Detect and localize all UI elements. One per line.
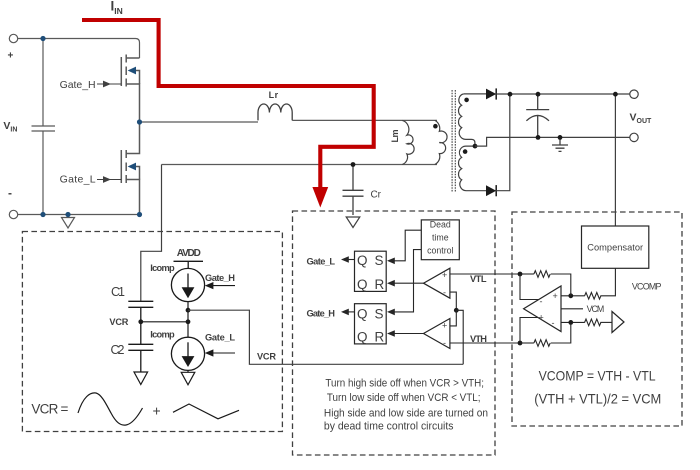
wire resonant rail to C1 [141,165,162,302]
dot minus input [568,320,573,325]
comparator U2 (VTH) [424,319,450,349]
svg-text:-: - [540,297,543,307]
resistor R buffer [585,319,601,326]
dot VTL rail [518,272,523,277]
svg-text:VTH: VTH [470,334,487,344]
svg-text:VOUT: VOUT [630,112,653,126]
svg-text:Q: Q [357,330,368,345]
terminal input + [9,34,17,42]
node dots output [508,92,618,140]
svg-text:-: - [552,318,555,328]
svg-text:Dead: Dead [430,220,451,230]
wire opamp out+ to VTL node [520,274,539,300]
svg-text:by dead time control circuits: by dead time control circuits [324,420,454,432]
capacitor C1 [128,301,153,322]
wire D2 cathode up [496,94,510,191]
svg-text:S: S [375,306,384,321]
wire input cap branch [42,39,44,215]
wire comp1 minus to node [450,292,456,310]
capacitor C2 [128,322,153,372]
svg-text:VIN: VIN [3,120,17,134]
dot VCR comp node [454,308,459,313]
ground output (earth) [552,137,568,151]
svg-text:-: - [443,288,446,298]
wire VTH bottom rail feedback [520,342,534,344]
wire top rail [18,39,140,59]
transformer primary winding [435,120,447,164]
dot mid node lower [186,319,191,324]
capacitor input Cin plates [32,126,56,131]
svg-text:Icomp: Icomp [150,263,175,273]
svg-text:VCR =: VCR = [31,402,68,417]
wire to buffer [600,321,612,323]
svg-text:VCOMP = VTH - VTL: VCOMP = VTH - VTL [539,367,656,383]
wire Lr to transformer [292,119,437,121]
wire VCR node [141,321,188,323]
diode D1 [486,89,496,100]
svg-text:Lr: Lr [269,90,279,100]
transformer secondary bottom winding [459,146,487,191]
wire dead time to latch1 S [395,230,422,261]
waveform triangle [173,404,239,419]
dot VTH rail [518,341,523,346]
svg-text:time: time [432,233,449,243]
svg-text:Cr: Cr [371,190,382,201]
op-amp differential [524,286,561,332]
terminal input - [9,210,17,218]
svg-text:Gate_H: Gate_H [60,79,96,91]
svg-text:Q: Q [357,277,368,292]
dot center tap [473,144,478,149]
wire output bottom rail [475,137,630,146]
box dead time control [421,220,459,260]
svg-text:Compensator: Compensator [587,243,643,253]
wire latch1 Q out (Gate_L) [348,259,355,261]
svg-text:Gate_H: Gate_H [205,273,235,283]
svg-text:Q: Q [357,306,368,321]
wire gate L arrow [97,179,121,181]
wire R VTH to minus input [551,322,571,343]
latch SR2 [355,304,387,344]
svg-text:VCM: VCM [587,304,605,314]
svg-text:control: control [427,245,453,255]
wire R VTL to plus input [551,274,571,296]
ground input [62,218,75,229]
wire comp2 to latch2 R [395,333,424,335]
wire compensator out to VCOMP resistor [600,268,615,296]
svg-text:Icomp: Icomp [150,330,175,340]
dot secondary top phase [464,98,469,103]
svg-text:+: + [442,270,447,280]
wire bottom rail [18,214,140,216]
svg-text:Gate_L: Gate_L [60,174,96,186]
capacitor Cout [526,94,549,137]
dot plus input [568,293,573,298]
wire comp1 to latch1 R [395,282,424,284]
inductor Lr [258,104,292,120]
svg-text:Gate_L: Gate_L [307,256,336,266]
svg-text:+: + [8,51,14,62]
diode D2 [486,185,496,196]
wire red IIN path [82,20,374,188]
svg-text:Q: Q [357,253,368,268]
svg-text:VTL: VTL [470,274,487,284]
wire secondary top to D1 [464,93,486,95]
wire node to comp2 plus [450,310,456,326]
transformer core [452,90,455,193]
transistor Q low-side MOSFET [121,122,139,215]
svg-text:VCR: VCR [109,317,128,327]
svg-text:R: R [375,330,385,345]
svg-text:+: + [539,313,544,323]
svg-text:R: R [375,277,385,292]
dot Cr node [351,162,356,167]
current source Icomp low [171,337,204,370]
svg-text:S: S [375,253,384,268]
resistor R VTH [534,340,550,347]
ground Cr [346,217,360,228]
node dots (blue) [40,36,142,217]
current source Icomp high [171,268,204,301]
svg-text:-: - [8,186,12,200]
wire node to VCR feed [456,310,463,364]
wire VTL rail [450,273,520,275]
dot mid node upper [186,308,191,313]
svg-text:Gate_L: Gate_L [205,333,235,343]
svg-text:-: - [443,338,446,348]
dashed box compensator [512,212,682,426]
dashed box VCR generator [22,232,282,432]
wire plus input [561,295,585,297]
waveform sine [78,393,143,425]
ground Icomp low [181,370,195,384]
inductor Lm [402,120,414,164]
wire dead time to latch2 S [395,250,422,312]
svg-text:(VTH + VTL)/2 = VCM: (VTH + VTL)/2 = VCM [534,390,661,406]
wire VCR to comparators [188,310,463,364]
svg-text:+: + [442,321,447,331]
svg-text:Turn low side off when VCR < V: Turn low side off when VCR < VTL; [327,392,481,404]
svg-text:Lm: Lm [390,130,400,143]
arrow body high-side [128,67,136,75]
arrow body low-side [128,163,136,171]
dot VCR-C junction [138,319,143,324]
box compensator [582,226,649,268]
wire VTL top rail feedback [520,273,534,275]
transformer secondary top winding [459,94,475,146]
svg-text:High side and low side are tur: High side and low side are turned on [324,408,488,420]
wire source mid node [187,302,189,338]
arrow red IIN [312,187,328,208]
wire switch node to Lr [140,121,259,123]
capacitor Cr [343,165,364,216]
dot primary phase [433,124,438,129]
svg-text:Turn high side off when VCR >: Turn high side off when VCR > VTH; [325,378,484,390]
svg-text:Gate_H: Gate_H [307,308,336,318]
resistor R VTL [534,271,550,278]
comparator U1 (VTL) [424,268,450,298]
terminal Vout + [630,90,638,98]
svg-text:+: + [553,291,558,301]
svg-text:AVDD: AVDD [177,248,201,259]
wire resonant bottom rail [162,164,438,166]
wire minus input [561,321,585,323]
power rail AVDD [174,261,204,268]
ground C2 [134,372,148,385]
dashed box control logic [293,211,496,455]
wire Gate_H ctrl arrow [213,285,235,287]
transistor Q high-side MOSFET [121,55,139,123]
wire gate H arrow [97,83,121,85]
buffer triangle [612,312,624,333]
svg-text:VCOMP: VCOMP [632,281,662,291]
svg-text:IIN: IIN [111,0,123,16]
svg-text:C1: C1 [111,285,125,299]
svg-text:+: + [153,403,161,419]
wire VTH rail [450,342,520,344]
wire opamp out- to VTH node [520,318,538,344]
svg-text:C2: C2 [111,343,125,357]
terminal Vout - [630,133,638,141]
wire VCM out [561,308,583,310]
wire Gate_L ctrl arrow [213,352,235,354]
dot secondary bottom phase [463,149,468,154]
svg-text:VCR: VCR [257,352,276,362]
wire latch2 Q out (Gate_H) [348,311,355,313]
wire Vout sense [614,94,616,226]
resistor R VCOMP [585,293,601,300]
latch SR1 [355,251,387,291]
wire output top rail [496,93,630,95]
